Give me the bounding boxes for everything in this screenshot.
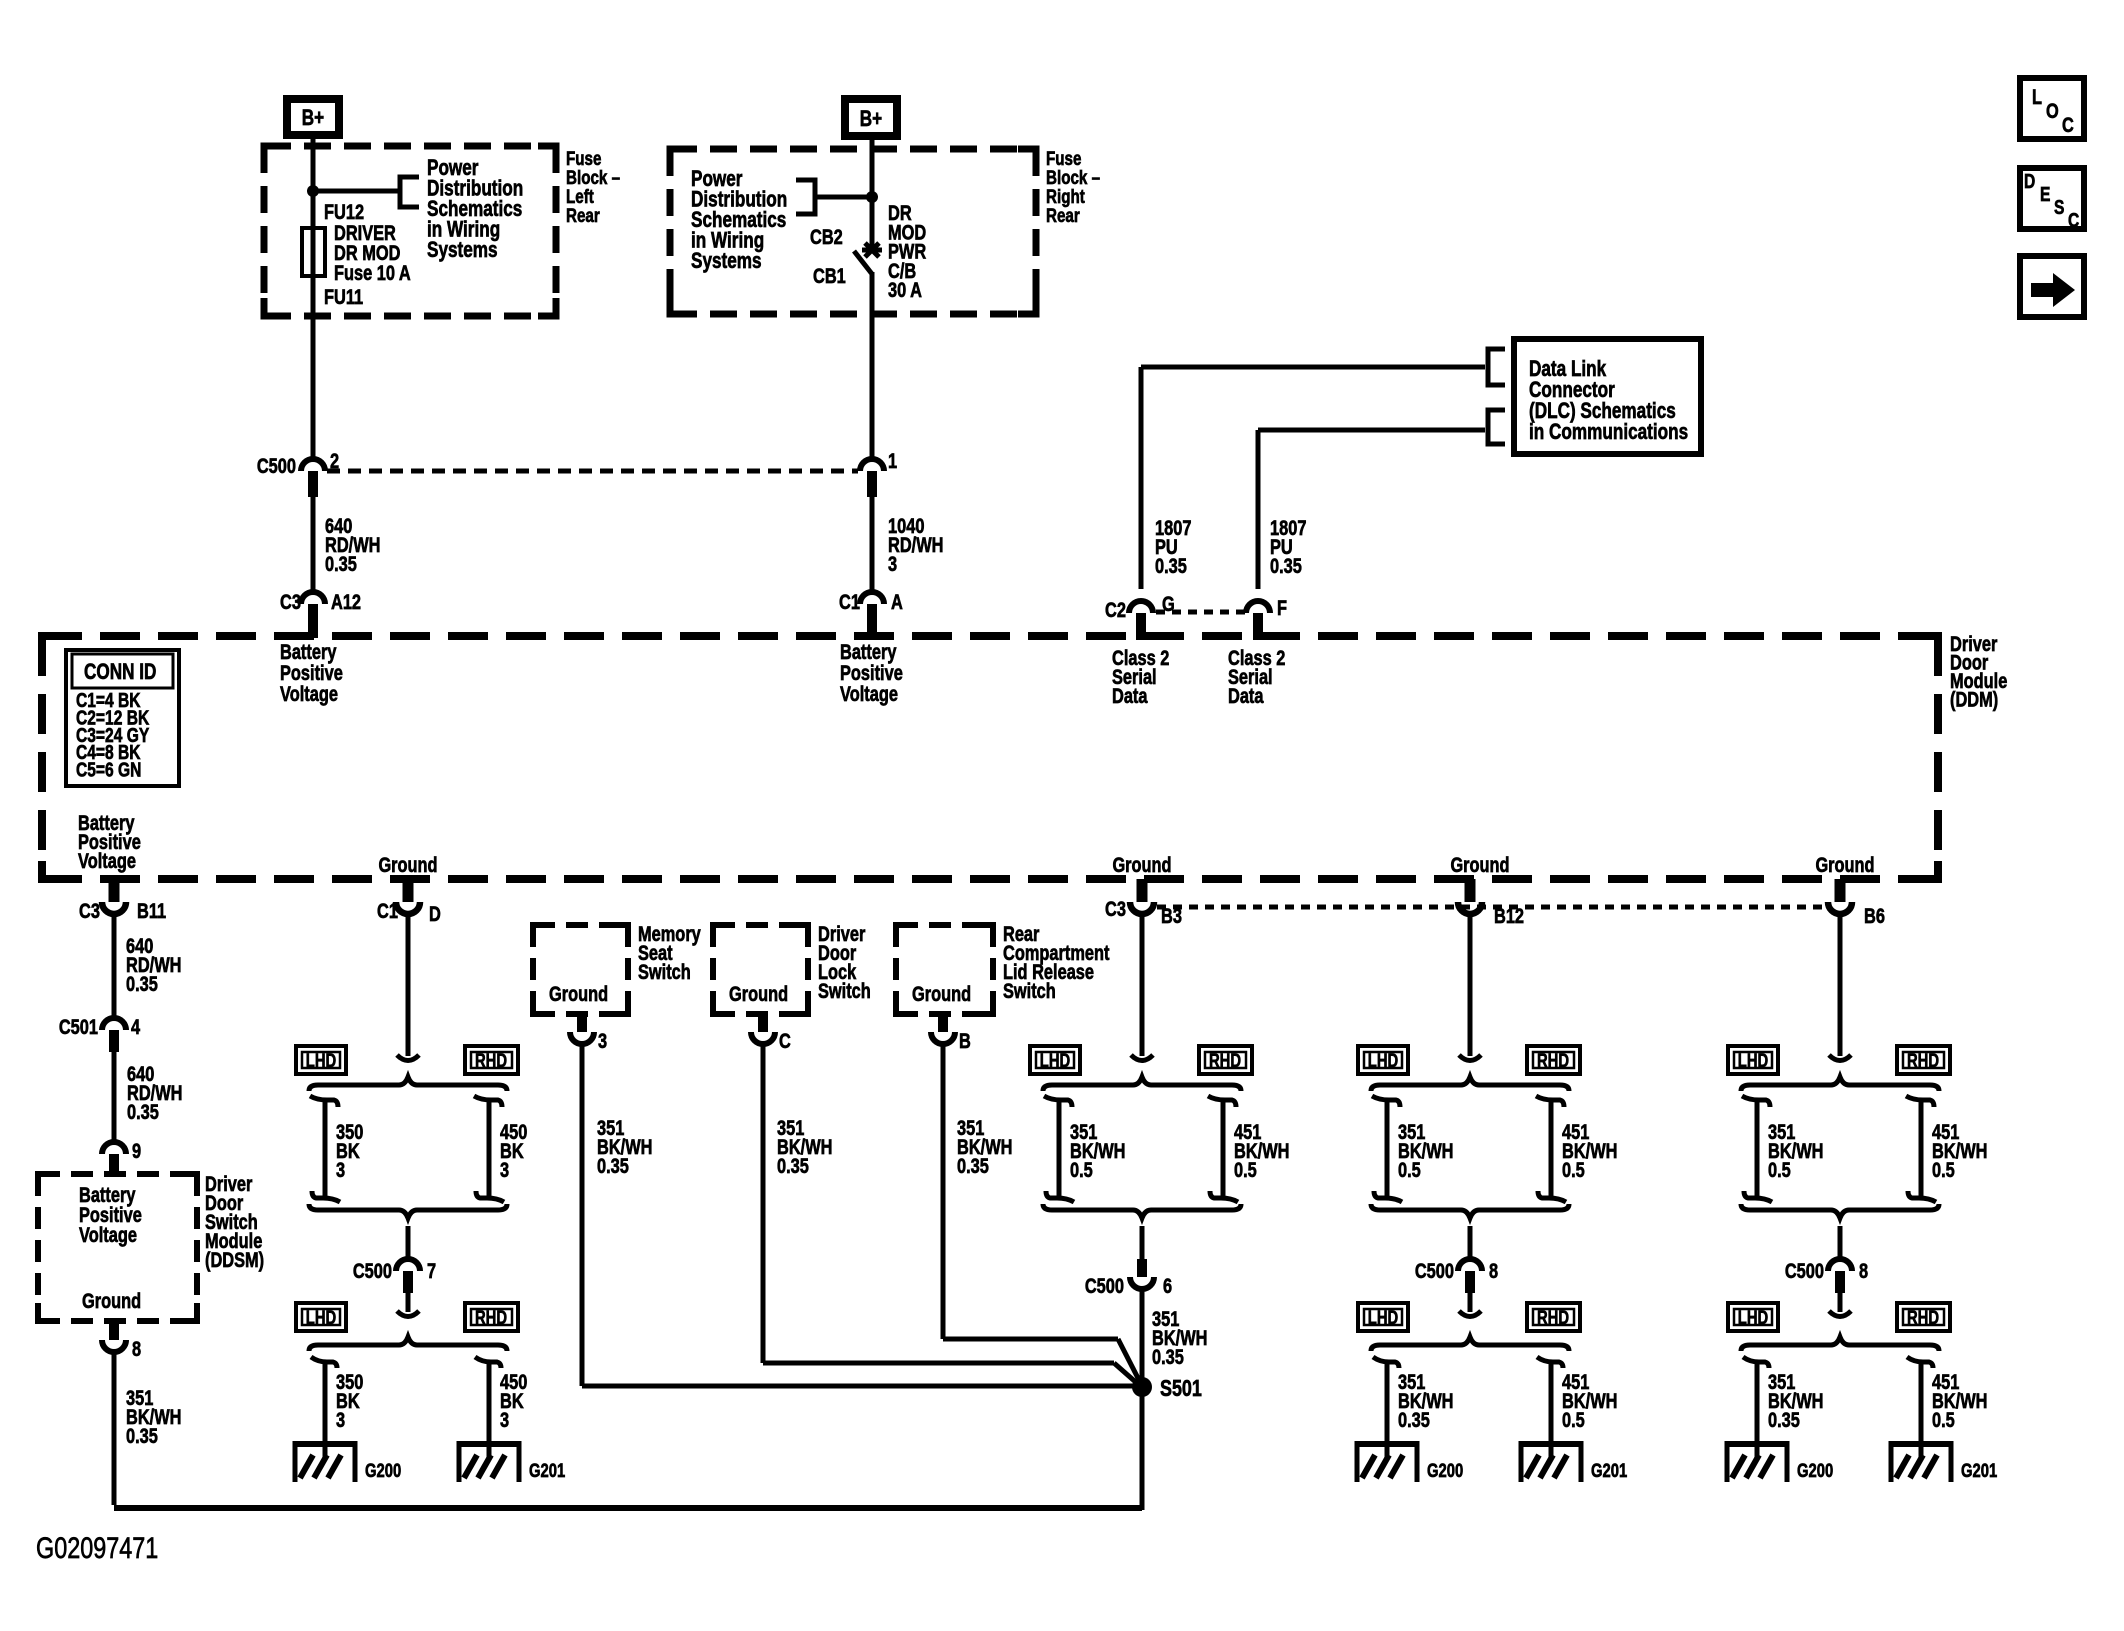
wire 351 BK/WH 0.5 (LHD branch) <box>1385 1100 1390 1198</box>
LOC button <box>2020 78 2084 139</box>
wire 451 BK/WH 0.5 (RHD branch) <box>1221 1100 1226 1198</box>
wire 450 BK 3 (RHD branch) <box>487 1100 492 1198</box>
connector pin 8 (DDSM) <box>102 1321 141 1360</box>
DLC terminal bracket (lower) <box>1488 410 1505 444</box>
svg-text:RHD: RHD <box>475 1050 507 1071</box>
svg-text:B+: B+ <box>860 107 882 132</box>
wire 640 RD/WH 0.35 from C501-4 to DDSM pin 9 <box>112 1052 117 1142</box>
ground G201 <box>1889 1441 1997 1482</box>
svg-text:0.35: 0.35 <box>126 1424 158 1447</box>
connector pin 9 (DDSM) <box>102 1139 141 1176</box>
wire 451 BK/WH 0.5 to G201 <box>1537 1357 1563 1441</box>
wire 640 RD/WH 0.35 from C500-2 to C3 A12 <box>311 497 316 592</box>
RHD tag (lower) <box>1527 1303 1580 1331</box>
svg-text:RHD: RHD <box>1537 1307 1569 1328</box>
LHD tag (lower) <box>1358 1303 1408 1331</box>
connector C2 pin G <box>1105 592 1175 640</box>
connector C500 pin 8 <box>1415 1226 1498 1317</box>
svg-text:Switch: Switch <box>1003 979 1056 1002</box>
label Rear Compartment Lid Release Switch <box>1003 922 1110 1002</box>
svg-text:Ground: Ground <box>378 853 437 876</box>
svg-text:3: 3 <box>500 1408 509 1431</box>
merge brace (upper) <box>1741 1204 1939 1218</box>
circuit breaker CB2/CB1 contact asterisk <box>862 243 882 257</box>
label 640 RD/WH 0.35 (B11 to C501) <box>126 934 181 995</box>
wire tap to Power Distribution Schematics note (right) <box>815 195 872 200</box>
svg-text:Data: Data <box>1112 684 1148 707</box>
label 1807 PU 0.35 (left) <box>1155 516 1191 577</box>
svg-text:4: 4 <box>131 1015 141 1038</box>
connector pin B (rear compartment lid release switch) <box>931 1014 971 1052</box>
connector C1 pin A <box>839 590 903 638</box>
svg-text:C500: C500 <box>1785 1259 1824 1282</box>
svg-text:0.5: 0.5 <box>1234 1158 1257 1181</box>
node label Class 2 Serial Data (under G) <box>1112 646 1169 707</box>
svg-text:Fuse 10 A: Fuse 10 A <box>334 261 411 284</box>
svg-text:7: 7 <box>427 1259 436 1282</box>
svg-text:C: C <box>2062 113 2074 136</box>
Driver Door Lock Switch dashed box <box>713 925 808 1014</box>
svg-text:LHD: LHD <box>306 1307 336 1328</box>
svg-text:3: 3 <box>888 552 897 575</box>
wire into LHD/RHD split at x=1142 <box>1140 915 1145 1056</box>
wire tap to Power Distribution Schematics note (left) <box>313 189 400 194</box>
wire 450 BK 3 to G201 <box>475 1357 501 1441</box>
RHD tag (lower) <box>465 1303 518 1331</box>
svg-text:RHD: RHD <box>475 1307 507 1328</box>
wire 351 BK/WH 0.35 from DDSM-8 to S501 <box>114 1352 1142 1510</box>
wire 1040 RD/WH 3 from C500-1 to C1 A <box>870 497 875 592</box>
note: Power Distribution Schematics in Wiring Systems (right) <box>691 167 787 274</box>
svg-text:G200: G200 <box>1427 1460 1463 1481</box>
wire 351 BK/WH 0.35 from door lock switch to S501 <box>763 1044 1139 1385</box>
label 451 BK/WH 0.5 <box>1932 1120 1987 1181</box>
label 350 BK 3 <box>336 1120 363 1181</box>
svg-text:C500: C500 <box>1415 1259 1454 1282</box>
label 350 BK 3 (lower) <box>336 1370 363 1431</box>
split brace (upper) <box>1371 1077 1569 1091</box>
wire from circuit breaker down to connector pin 1 <box>870 272 875 459</box>
svg-text:6: 6 <box>1163 1274 1172 1297</box>
wire 351 BK/WH 0.35 from memory seat switch to S501 <box>582 1044 1134 1386</box>
junction dot on B+ wire (right fuse block) <box>866 191 878 203</box>
ground G201 <box>457 1441 565 1482</box>
node label Battery Positive Voltage (DDSM) <box>79 1183 142 1246</box>
svg-text:8: 8 <box>1489 1259 1498 1282</box>
wire into LHD/RHD split at x=1470 <box>1468 915 1473 1056</box>
svg-text:FU11: FU11 <box>324 285 363 308</box>
svg-text:B+: B+ <box>302 106 324 131</box>
Data Link Connector (DLC) note box <box>1514 339 1701 454</box>
svg-text:Ground: Ground <box>1815 853 1874 876</box>
label 351 BK/WH 0.35 (lower) <box>1768 1370 1823 1431</box>
svg-text:Ground: Ground <box>729 982 788 1005</box>
ground G200 <box>1725 1441 1833 1482</box>
svg-text:Data: Data <box>1228 684 1264 707</box>
label 351 BK/WH 0.35 (DDSM to S501) <box>126 1386 181 1447</box>
label 451 BK/WH 0.5 <box>1234 1120 1289 1181</box>
svg-text:3: 3 <box>500 1158 509 1181</box>
svg-text:A: A <box>891 590 903 613</box>
svg-text:LHD: LHD <box>1368 1050 1398 1071</box>
wire 351 BK/WH 0.35 to G200 <box>1373 1357 1399 1441</box>
LHD tag (lower) <box>1728 1303 1778 1331</box>
label Driver Door Module (DDM) <box>1950 632 2007 711</box>
connector pin 3 (memory seat switch) <box>570 1014 607 1052</box>
svg-text:C3: C3 <box>79 899 100 922</box>
svg-text:0.5: 0.5 <box>1398 1158 1421 1181</box>
svg-text:Ground: Ground <box>1450 853 1509 876</box>
svg-text:0.35: 0.35 <box>127 1100 159 1123</box>
svg-text:CB1: CB1 <box>813 264 846 287</box>
node label Battery Positive Voltage (under C1 A) <box>840 640 903 705</box>
split brace (upper) <box>309 1077 507 1091</box>
next-page arrow button <box>2020 256 2084 317</box>
svg-text:RHD: RHD <box>1537 1050 1569 1071</box>
svg-text:0.35: 0.35 <box>1270 554 1302 577</box>
node label Battery Positive Voltage (under C3 A12) <box>280 640 343 705</box>
svg-text:E: E <box>2040 183 2050 205</box>
svg-text:0.5: 0.5 <box>1932 1408 1955 1431</box>
label 450 BK 3 (lower) <box>500 1370 527 1431</box>
fuse block - right rear dashed box <box>670 149 1036 314</box>
wire 451 BK/WH 0.5 (RHD branch) <box>1549 1100 1554 1198</box>
svg-text:Ground: Ground <box>82 1289 141 1312</box>
RHD tag (upper) <box>1897 1046 1950 1074</box>
wire from B+ down to circuit breaker CB <box>870 140 875 252</box>
Rear Compartment Lid Release Switch dashed box <box>896 925 993 1014</box>
label 351 BK/WH 0.5 <box>1768 1120 1823 1181</box>
node label Class 2 Serial Data (under F) <box>1228 646 1285 707</box>
label 351 BK/WH 0.5 <box>1398 1120 1453 1181</box>
split brace (lower) <box>309 1337 507 1351</box>
svg-text:Voltage: Voltage <box>79 1223 137 1246</box>
split brace (lower) <box>1741 1337 1939 1351</box>
RHD tag (upper) <box>1199 1046 1252 1074</box>
label Fuse Block - Left Rear <box>566 147 620 226</box>
DESC button <box>2020 168 2084 231</box>
LHD tag (upper) <box>1358 1046 1408 1074</box>
svg-text:C3: C3 <box>1105 897 1126 920</box>
svg-text:8: 8 <box>132 1337 141 1360</box>
fuse block - left rear dashed box <box>264 146 556 316</box>
svg-text:C5=6 GN: C5=6 GN <box>76 759 141 781</box>
svg-text:LHD: LHD <box>1368 1307 1398 1328</box>
label 351 BK/WH 0.5 <box>1070 1120 1125 1181</box>
splice S501 <box>1132 1376 1202 1402</box>
svg-text:C500: C500 <box>257 454 296 477</box>
ground G200 <box>1355 1441 1463 1482</box>
svg-text:F: F <box>1277 596 1287 619</box>
label Memory Seat Switch <box>638 922 701 983</box>
svg-text:Battery: Battery <box>840 640 897 663</box>
LHD tag (upper) <box>1030 1046 1080 1074</box>
svg-text:Voltage: Voltage <box>280 682 338 705</box>
wire from B+ down through fuse FU12/FU11 to connector C500 pin 2 <box>311 139 316 459</box>
svg-text:0.35: 0.35 <box>1398 1408 1430 1431</box>
label Fuse Block - Right Rear <box>1046 147 1100 226</box>
svg-text:LHD: LHD <box>1738 1050 1768 1071</box>
connector pin C (driver door lock switch) <box>751 1014 791 1052</box>
connector C500 pin 6 <box>1085 1226 1172 1297</box>
connector C500 pin 7 <box>353 1226 436 1317</box>
svg-text:Systems: Systems <box>691 249 762 274</box>
svg-text:D: D <box>2024 170 2035 192</box>
svg-text:0.35: 0.35 <box>1152 1345 1184 1368</box>
ground G200 <box>293 1441 401 1482</box>
wire 351 BK/WH 0.35 to G200 <box>1743 1357 1769 1441</box>
label 451 BK/WH 0.5 (lower) <box>1562 1370 1617 1431</box>
svg-text:(DDM): (DDM) <box>1950 688 1998 711</box>
LHD tag (upper) <box>296 1046 346 1074</box>
Driver Door Module (DDM) dashed box <box>42 636 1938 879</box>
label DR MOD PWR C/B 30 A <box>888 201 927 302</box>
svg-text:C2: C2 <box>1105 598 1126 621</box>
svg-text:Ground: Ground <box>549 982 608 1005</box>
svg-text:0.35: 0.35 <box>777 1154 809 1177</box>
svg-text:C500: C500 <box>353 1259 392 1282</box>
connector pin F <box>1246 596 1287 640</box>
svg-text:Rear: Rear <box>1046 204 1080 226</box>
svg-text:C1: C1 <box>839 590 860 613</box>
svg-text:3: 3 <box>598 1029 607 1052</box>
label 451 BK/WH 0.5 <box>1562 1120 1617 1181</box>
wire 351 BK/WH 0.35 from C500-6 through S501 <box>1140 1289 1145 1390</box>
svg-text:G201: G201 <box>1961 1460 1997 1481</box>
svg-text:0.5: 0.5 <box>1562 1158 1585 1181</box>
svg-text:O: O <box>2046 99 2059 122</box>
wire 350 BK 3 to G200 <box>311 1357 337 1441</box>
svg-text:Rear: Rear <box>566 204 600 226</box>
RHD tag (lower) <box>1897 1303 1950 1331</box>
svg-text:0.35: 0.35 <box>126 972 158 995</box>
svg-text:3: 3 <box>336 1158 345 1181</box>
CONN ID table <box>66 650 179 786</box>
label 640 RD/WH 0.35 (upper left) <box>325 514 380 575</box>
svg-text:0.35: 0.35 <box>1768 1408 1800 1431</box>
merge brace (upper) <box>1371 1204 1569 1218</box>
svg-text:Switch: Switch <box>638 960 691 983</box>
dotted link from B3 to B12 and B6 <box>1157 905 1826 910</box>
svg-text:FU12: FU12 <box>324 200 364 223</box>
svg-text:G201: G201 <box>529 1460 565 1481</box>
svg-text:G200: G200 <box>365 1460 401 1481</box>
svg-text:Switch: Switch <box>818 979 871 1002</box>
connector C500 pin 2 <box>257 449 339 497</box>
DLC terminal bracket (upper) <box>1488 349 1505 385</box>
svg-text:Systems: Systems <box>427 238 498 263</box>
label DRIVER / DR MOD / Fuse 10 A <box>334 221 411 284</box>
svg-text:0.35: 0.35 <box>325 552 357 575</box>
svg-text:0.35: 0.35 <box>1155 554 1187 577</box>
connector pin B6 <box>1828 879 1885 927</box>
svg-text:in Communications: in Communications <box>1529 420 1688 445</box>
wire 1807 PU 0.35 from DLC to C2 G <box>1141 367 1485 589</box>
svg-text:L: L <box>2032 85 2042 108</box>
svg-text:Voltage: Voltage <box>78 849 136 872</box>
label 351 BK/WH 0.35 (lower) <box>1398 1370 1453 1431</box>
svg-text:G200: G200 <box>1797 1460 1833 1481</box>
svg-text:RHD: RHD <box>1907 1050 1939 1071</box>
power symbol B+ (right) <box>845 99 897 136</box>
dashed harness line between C500 pin 2 and pin 1 <box>327 469 858 474</box>
RHD tag (upper) <box>1527 1046 1580 1074</box>
svg-text:C1: C1 <box>377 899 398 922</box>
svg-text:C501: C501 <box>59 1015 98 1038</box>
fuse DRIVER DR MOD Fuse 10 A symbol <box>302 228 325 276</box>
svg-text:B: B <box>959 1029 971 1052</box>
label 351 BK/WH 0.35 (below C500-6) <box>1152 1307 1207 1368</box>
svg-text:Positive: Positive <box>280 661 343 684</box>
svg-text:G201: G201 <box>1591 1460 1627 1481</box>
svg-text:LHD: LHD <box>1738 1307 1768 1328</box>
wire 350 BK 3 (LHD branch) <box>323 1100 328 1198</box>
split brace (upper) <box>1043 1077 1241 1091</box>
wire 351 BK/WH 0.35 from lid release switch to S501 <box>943 1044 1141 1384</box>
svg-text:30 A: 30 A <box>888 278 922 301</box>
connector C500 pin 1 <box>860 449 897 497</box>
svg-text:B11: B11 <box>137 899 166 922</box>
wire 451 BK/WH 0.5 (RHD branch) <box>1919 1100 1924 1198</box>
LHD tag (lower) <box>296 1303 346 1331</box>
label 1807 PU 0.35 (right) <box>1270 516 1306 577</box>
label Driver Door Lock Switch <box>818 922 871 1002</box>
svg-text:LHD: LHD <box>1040 1050 1070 1071</box>
svg-text:0.35: 0.35 <box>957 1154 989 1177</box>
svg-text:A12: A12 <box>331 590 361 613</box>
svg-text:RHD: RHD <box>1907 1307 1939 1328</box>
Driver Door Switch Module (DDSM) dashed box <box>38 1174 197 1321</box>
svg-text:B6: B6 <box>1864 904 1885 927</box>
svg-text:C500: C500 <box>1085 1274 1124 1297</box>
svg-text:CONN ID: CONN ID <box>84 660 156 685</box>
svg-text:S: S <box>2054 196 2064 218</box>
connector C3 pin A12 <box>280 590 361 638</box>
svg-text:0.5: 0.5 <box>1070 1158 1093 1181</box>
svg-text:(DDSM): (DDSM) <box>205 1248 264 1271</box>
RHD tag (upper) <box>465 1046 518 1074</box>
merge brace (upper) <box>309 1204 507 1218</box>
label 351 BK/WH 0.35 (memory seat) <box>597 1116 652 1177</box>
label Driver Door Switch Module (DDSM) <box>205 1172 264 1271</box>
label 640 RD/WH 0.35 (C501 to DDSM) <box>127 1062 182 1123</box>
svg-text:CB2: CB2 <box>810 225 843 248</box>
ground G201 <box>1519 1441 1627 1482</box>
Memory Seat Switch dashed box <box>533 925 628 1014</box>
power symbol B+ (left) <box>287 99 339 135</box>
svg-text:LHD: LHD <box>306 1050 336 1071</box>
svg-text:Voltage: Voltage <box>840 682 898 705</box>
label 351 BK/WH 0.35 (door lock) <box>777 1116 832 1177</box>
svg-text:B12: B12 <box>1494 904 1524 927</box>
bracket to Power Distribution note (right) <box>796 180 815 214</box>
svg-text:D: D <box>429 902 441 925</box>
label 351 BK/WH 0.35 (lid release) <box>957 1116 1012 1177</box>
svg-text:C3: C3 <box>280 590 301 613</box>
circuit breaker blade (diagonal) <box>854 251 872 274</box>
connector C3 pin B11 <box>79 879 166 922</box>
svg-text:Ground: Ground <box>1112 853 1171 876</box>
split brace (upper) <box>1741 1077 1939 1091</box>
node label Battery Positive Voltage (DDM lower left) <box>78 811 141 872</box>
svg-text:C: C <box>779 1029 791 1052</box>
LHD tag (upper) <box>1728 1046 1778 1074</box>
svg-text:RHD: RHD <box>1209 1050 1241 1071</box>
connector pin B12 <box>1458 879 1524 927</box>
junction dot on B+ wire (left fuse block) <box>307 185 319 197</box>
merge brace (upper) <box>1043 1204 1241 1218</box>
svg-text:Positive: Positive <box>840 661 903 684</box>
svg-text:G02097471: G02097471 <box>36 1531 158 1564</box>
svg-text:0.5: 0.5 <box>1768 1158 1791 1181</box>
wire 451 BK/WH 0.5 to G201 <box>1907 1357 1933 1441</box>
label 1040 RD/WH 3 (upper right) <box>888 514 943 575</box>
svg-text:8: 8 <box>1859 1259 1868 1282</box>
note: Power Distribution Schematics in Wiring Systems (left) <box>427 156 523 263</box>
dashed link between pins G and F <box>1156 610 1246 615</box>
connector C3 pin B3 <box>1105 879 1182 927</box>
wire 1807 PU 0.35 from DLC to F <box>1258 430 1485 589</box>
svg-text:0.35: 0.35 <box>597 1154 629 1177</box>
svg-text:3: 3 <box>336 1408 345 1431</box>
connector C500 pin 8 <box>1785 1226 1868 1317</box>
wire into LHD/RHD split at x=1840 <box>1838 915 1843 1056</box>
svg-text:9: 9 <box>132 1139 141 1162</box>
wire 351 BK/WH 0.5 (LHD branch) <box>1755 1100 1760 1198</box>
label 450 BK 3 <box>500 1120 527 1181</box>
connector C1 pin D <box>377 879 441 925</box>
wire 640 RD/WH 0.35 from C3 B11 to C501-4 <box>112 915 117 1018</box>
bracket to Power Distribution note (left) <box>400 177 419 207</box>
svg-text:0.5: 0.5 <box>1562 1408 1585 1431</box>
wire 351 BK/WH 0.5 (LHD branch) <box>1057 1100 1062 1198</box>
svg-text:S501: S501 <box>1160 1376 1202 1402</box>
svg-text:1: 1 <box>888 449 897 472</box>
connector C501 pin 4 <box>59 1015 141 1052</box>
label 451 BK/WH 0.5 (lower) <box>1932 1370 1987 1431</box>
svg-text:Ground: Ground <box>912 982 971 1005</box>
svg-text:Battery: Battery <box>280 640 337 663</box>
wire into LHD/RHD split at x=408 <box>406 915 411 1056</box>
svg-text:C: C <box>2068 209 2079 231</box>
svg-text:0.5: 0.5 <box>1932 1158 1955 1181</box>
split brace (lower) <box>1371 1337 1569 1351</box>
